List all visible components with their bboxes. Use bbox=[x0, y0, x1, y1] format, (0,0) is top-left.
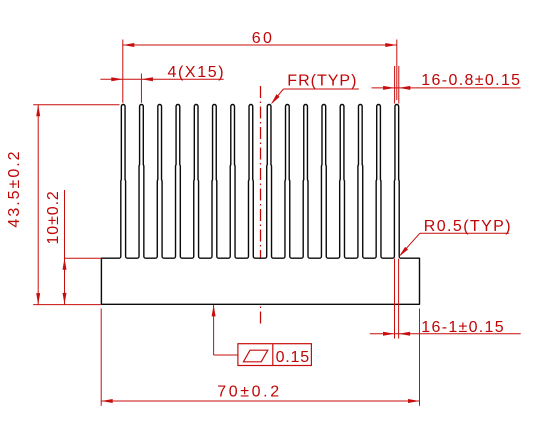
svg-text:0.15: 0.15 bbox=[276, 349, 310, 366]
label FR(TYP) leader bbox=[271, 72, 359, 104]
label R0.5(TYP) leader bbox=[399, 218, 512, 257]
centerline bbox=[260, 86, 262, 327]
svg-text:R0.5(TYP): R0.5(TYP) bbox=[424, 218, 512, 235]
svg-text:FR(TYP): FR(TYP) bbox=[287, 72, 357, 89]
svg-text:10±0.2: 10±0.2 bbox=[45, 190, 62, 244]
dimension 16-1±0.15 fin root thickness bbox=[370, 259, 521, 339]
svg-text:43.5±0.2: 43.5±0.2 bbox=[6, 149, 23, 227]
svg-text:16-1±0.15: 16-1±0.15 bbox=[421, 319, 505, 336]
dimension 43.5±0.2 overall height bbox=[6, 105, 120, 305]
dimension 4(X15) fin pitch bbox=[100, 64, 225, 103]
dimension 70±0.2 base width bbox=[101, 309, 419, 406]
svg-text:70±0.2: 70±0.2 bbox=[217, 384, 281, 401]
svg-text:4(X15): 4(X15) bbox=[168, 64, 226, 81]
dimension 16-0.8±0.15 fin tip thickness bbox=[372, 66, 522, 104]
heatsink profile: base plate with 16 fins bbox=[101, 104, 419, 304]
dimension 10±0.2 base height bbox=[45, 190, 101, 305]
svg-text:60: 60 bbox=[252, 30, 275, 47]
svg-text:16-0.8±0.15: 16-0.8±0.15 bbox=[421, 72, 521, 89]
flatness tolerance callout 0.15 bbox=[212, 305, 312, 366]
dimension 60 (fin span) bbox=[123, 30, 397, 103]
